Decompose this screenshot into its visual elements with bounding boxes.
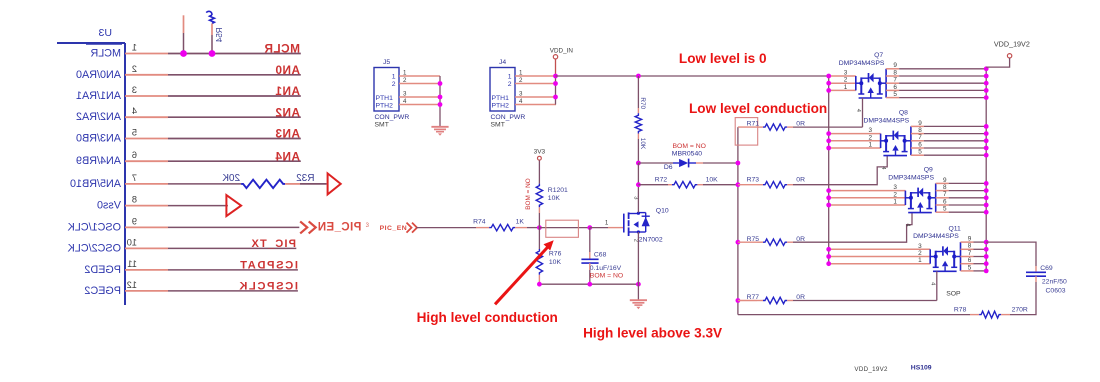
wire mosfet left bus <box>828 76 830 264</box>
transistor Q11 gate bracket <box>933 270 957 272</box>
svg-text:1: 1 <box>392 74 396 81</box>
resistor R32 zigzag <box>241 180 285 188</box>
svg-text:8: 8 <box>918 127 922 134</box>
svg-text:AN3/RB0: AN3/RB0 <box>76 133 121 145</box>
resistor R71 zigzag <box>763 124 787 130</box>
ground under J5 <box>431 126 448 128</box>
svg-text:SMT: SMT <box>375 121 389 128</box>
wire R71 left <box>738 126 757 128</box>
svg-text:MCLR: MCLR <box>90 48 121 60</box>
ic U3 body outline <box>124 43 126 305</box>
svg-text:8: 8 <box>132 195 137 205</box>
connector J5 pin 1 stub <box>399 75 440 77</box>
junction J5 pin2 <box>438 81 443 86</box>
svg-text:CON_PWR: CON_PWR <box>491 114 526 121</box>
svg-text:R54: R54 <box>215 28 224 43</box>
junction left bus Q7 pin 1 <box>826 88 831 93</box>
wire C68 bottom lead <box>589 263 591 270</box>
wire R70 bottom <box>637 134 639 140</box>
junction right bus Q9 pin 6 <box>984 203 989 208</box>
svg-text:AN4/RB9: AN4/RB9 <box>76 155 121 167</box>
svg-text:R74: R74 <box>473 219 486 226</box>
junction right bus Q7 pin 9 <box>984 66 989 71</box>
wire Q7 gate vertical <box>862 98 864 127</box>
wire R77 left <box>738 300 757 302</box>
svg-text:2: 2 <box>844 77 848 84</box>
transistor Q8 left pin 1 wire <box>829 147 881 149</box>
wire row10 PIC_TX <box>168 247 296 249</box>
svg-text:6: 6 <box>943 198 947 205</box>
transistor Q11 right bracket <box>960 242 962 271</box>
transistor Q8 gate bracket <box>883 155 907 157</box>
svg-text:DMP34M4SPS: DMP34M4SPS <box>864 118 910 125</box>
wire R73 right <box>787 184 793 186</box>
svg-text:Low level conduction: Low level conduction <box>689 101 827 116</box>
svg-text:9: 9 <box>968 236 972 243</box>
wire net AN4 <box>168 160 301 162</box>
wire bottom rail <box>539 283 638 285</box>
svg-text:VDD_19V2: VDD_19V2 <box>854 366 888 373</box>
junction right bus Q8 pin 9 <box>984 124 989 129</box>
transistor Q8 right pin 5 wire <box>911 154 924 156</box>
svg-text:4: 4 <box>403 98 407 105</box>
wire node to R76 <box>538 228 540 249</box>
wire D6 anode <box>638 162 673 164</box>
wire R71 right <box>787 126 793 128</box>
junction left bus Q8 pin 3 <box>826 131 831 136</box>
svg-text:R70: R70 <box>639 97 646 109</box>
resistor R74 zigzag <box>489 224 515 230</box>
svg-text:AN5/RB10: AN5/RB10 <box>70 178 121 190</box>
junction R70 top <box>636 74 641 79</box>
connector J4 pin 3 stub <box>515 96 556 98</box>
svg-text:HS109: HS109 <box>911 364 932 371</box>
svg-text:3: 3 <box>519 90 523 97</box>
svg-text:AN2/RA2: AN2/RA2 <box>76 111 121 123</box>
wire R75 left <box>738 241 757 243</box>
junction gate bus R75 <box>736 240 741 245</box>
connector J4 pin 1 stub <box>515 75 556 77</box>
junction J4 pin2 <box>553 81 558 86</box>
transistor Q7 left pin 2 wire <box>829 82 856 84</box>
wire R78 right <box>1001 314 1010 316</box>
diode D6 <box>679 159 688 167</box>
svg-text:9: 9 <box>918 120 922 127</box>
wire R76 to rail <box>538 275 540 284</box>
svg-text:1: 1 <box>508 74 512 81</box>
transistor Q8 left bracket <box>880 134 882 148</box>
svg-text:R76: R76 <box>549 250 562 257</box>
wire row11 ICSPDAT <box>168 269 298 271</box>
wire R72 left <box>638 184 668 186</box>
svg-text:3: 3 <box>918 243 922 250</box>
junction right bus Q9 pin 9 <box>984 181 989 186</box>
svg-text:1: 1 <box>844 84 848 91</box>
svg-text:C68: C68 <box>594 252 607 259</box>
svg-text:Q9: Q9 <box>924 167 933 174</box>
svg-text:3: 3 <box>869 127 873 134</box>
junction left bus Q11 pin 3 <box>826 247 831 252</box>
transistor Q9 right pin 7 wire <box>936 197 949 199</box>
wire row7 segment box to R32 <box>168 183 241 185</box>
transistor Q9 right pin 9 wire <box>936 182 949 184</box>
svg-text:PGEC2: PGEC2 <box>84 285 121 297</box>
svg-text:High level conduction: High level conduction <box>417 310 558 325</box>
wire D6 cathode <box>689 162 696 164</box>
resistor R78 zigzag <box>979 311 1001 318</box>
svg-text:9: 9 <box>893 62 897 69</box>
transistor Q8 left pin 2 wire <box>829 140 881 142</box>
transistor Q11 left pin 1 wire <box>829 263 931 265</box>
transistor Q11 channel junctions <box>934 255 938 259</box>
wire U3 pin 10 stub <box>125 247 168 249</box>
wire U3 pin 5 stub <box>125 138 168 140</box>
junction right bus Q7 pin 6 <box>984 88 989 93</box>
svg-text:DMP34M4SPS: DMP34M4SPS <box>839 60 885 67</box>
svg-text:PIC_TX: PIC_TX <box>250 238 296 250</box>
junction right bus Q8 pin 7 <box>984 138 989 143</box>
wire U3 pin 11 stub <box>125 269 168 271</box>
connector J5 body <box>374 68 399 112</box>
svg-text:1: 1 <box>893 199 897 206</box>
transistor Q9 right pin 5 wire <box>936 211 949 213</box>
connector J5 pin 3 stub <box>399 96 440 98</box>
svg-text:3: 3 <box>844 70 848 77</box>
svg-text:PTH1: PTH1 <box>376 95 394 102</box>
svg-text:3: 3 <box>893 184 897 191</box>
Q10 drain junction <box>637 212 640 215</box>
svg-text:Q8: Q8 <box>899 110 908 117</box>
Q10 source junction <box>637 230 640 233</box>
ground under Q10 <box>637 284 639 299</box>
wire U3 pin 12 stub <box>125 290 168 292</box>
junction right bus Q11 pin 5 <box>984 269 989 274</box>
svg-text:10K: 10K <box>639 138 646 150</box>
svg-text:2: 2 <box>132 64 137 74</box>
transistor Q11 right pin 7 wire <box>961 256 974 258</box>
buffer triangle row8 <box>226 195 241 216</box>
wire U3 pin 1 stub <box>125 53 168 55</box>
resistor R1201 zigzag <box>536 184 542 208</box>
transistor Q8 right pin 8 wire <box>911 133 924 135</box>
svg-text:MCLR: MCLR <box>264 42 300 56</box>
svg-text:PIC_EN: PIC_EN <box>380 225 408 232</box>
svg-text:4: 4 <box>519 98 523 105</box>
wire R75 right <box>787 241 793 243</box>
junction MCLR B <box>209 50 216 57</box>
junction left bus Q11 pin 2 <box>826 254 831 259</box>
svg-text:CON_PWR: CON_PWR <box>375 114 410 121</box>
transistor Q9 left pin 1 wire <box>829 204 906 206</box>
junction left bus Q9 pin 3 <box>826 188 831 193</box>
svg-text:5: 5 <box>132 128 137 138</box>
transistor Q9 body <box>910 192 912 209</box>
wire R77 to Q11 gate <box>793 300 937 302</box>
svg-text:High level above 3.3V: High level above 3.3V <box>583 326 722 341</box>
svg-text:C69: C69 <box>1040 265 1053 272</box>
svg-text:10K: 10K <box>548 195 561 202</box>
junction left bus Q7 pin 3 <box>826 74 831 79</box>
junction left bus Q8 pin 1 <box>826 146 831 151</box>
svg-text:R78: R78 <box>954 307 967 314</box>
transistor Q8 right bracket <box>910 126 912 155</box>
svg-text:2: 2 <box>893 191 897 198</box>
wire R73 left <box>738 184 757 186</box>
wire R72 right <box>697 184 703 186</box>
connector J4 pin 2 stub <box>515 83 556 85</box>
transistor Q8 right pin 7 wire <box>911 140 924 142</box>
svg-text:VDD_IN: VDD_IN <box>550 47 574 54</box>
svg-text:BOM = NO: BOM = NO <box>525 178 532 209</box>
resistor R73 zigzag <box>763 182 787 188</box>
svg-text:0.1uF/16V: 0.1uF/16V <box>590 265 622 272</box>
svg-text:Q7: Q7 <box>874 52 883 59</box>
svg-text:DMP34M4SPS: DMP34M4SPS <box>888 175 934 182</box>
svg-text:6: 6 <box>918 141 922 148</box>
svg-text:ICSPCLK: ICSPCLK <box>238 281 298 293</box>
svg-text:6: 6 <box>968 257 972 264</box>
junction rail R76 <box>537 282 542 287</box>
svg-text:AN0: AN0 <box>275 63 300 77</box>
wire R75 to Q9 gate jog <box>793 213 912 243</box>
transistor Q11 left pin 2 wire <box>829 256 931 258</box>
wire row9 PIC_EN <box>168 226 299 228</box>
svg-text:AN1/RA1: AN1/RA1 <box>76 90 121 102</box>
transistor Q9 channel junctions <box>909 196 913 200</box>
svg-text:VDD_19V2: VDD_19V2 <box>994 40 1030 49</box>
transistor Q9 right bracket <box>935 183 937 212</box>
svg-text:4: 4 <box>132 106 137 116</box>
junction J4 pin1 <box>553 74 558 79</box>
transistor Q9 gate bracket <box>908 212 932 214</box>
junction R72 left <box>636 182 641 187</box>
wire U3 pin 9 stub <box>125 226 168 228</box>
svg-text:0R: 0R <box>796 177 805 184</box>
transistor Q8 right pin 6 wire <box>911 147 924 149</box>
wire VDD_19V2 stem <box>986 58 1009 67</box>
svg-text:5: 5 <box>918 149 922 156</box>
wire U3 pin 7 stub <box>125 183 168 185</box>
transistor Q7 body <box>860 77 862 94</box>
wire C69 top lead <box>986 242 1036 266</box>
junction right bus Q7 pin 7 <box>984 81 989 86</box>
svg-text:8: 8 <box>893 69 897 76</box>
svg-text:7: 7 <box>918 134 922 141</box>
svg-text:7: 7 <box>968 250 972 257</box>
wire U3 pin 6 stub <box>125 160 168 162</box>
transistor Q7 left pin 3 wire <box>829 75 856 77</box>
transistor Q11 body <box>935 251 937 268</box>
svg-text:1: 1 <box>918 257 922 264</box>
connector J4 body <box>490 68 515 112</box>
svg-text:PTH2: PTH2 <box>492 103 510 110</box>
wire R70 to R72 row <box>637 163 639 185</box>
svg-text:5: 5 <box>943 206 947 213</box>
transistor Q7 right pin 5 wire <box>886 97 899 99</box>
transistor Q7 right bracket <box>885 69 887 98</box>
highlight box around R76 <box>546 220 579 237</box>
resistor R75 zigzag <box>763 239 787 245</box>
transistor Q8 channel junctions <box>884 139 888 143</box>
svg-text:AN2: AN2 <box>275 105 300 119</box>
svg-text:3: 3 <box>633 196 639 199</box>
wire net AN0 <box>168 74 301 76</box>
junction right bus Q11 pin 7 <box>984 254 989 259</box>
transistor Q7 gate bracket <box>859 97 883 99</box>
svg-text:1: 1 <box>132 43 137 53</box>
junction J4 pin3 <box>553 95 558 100</box>
svg-text:PIC_EN: PIC_EN <box>317 222 361 234</box>
annotation arrow to R76 <box>495 244 551 305</box>
svg-text:PTH1: PTH1 <box>492 95 510 102</box>
svg-text:3V3: 3V3 <box>534 149 546 156</box>
capacitor C69 plates <box>1026 271 1046 273</box>
wire row8 Vss0 <box>168 205 228 207</box>
transistor Q7 right pin 7 wire <box>886 82 899 84</box>
svg-text:SOP: SOP <box>946 291 961 298</box>
svg-text:2: 2 <box>508 81 512 88</box>
wire node to C68 node <box>539 227 589 229</box>
wire VDD_IN stem <box>555 59 557 76</box>
transistor Q10 symbol <box>623 214 625 233</box>
resistor R54 zigzag <box>210 15 215 24</box>
capacitor C68 plates <box>581 258 598 260</box>
svg-text:7: 7 <box>132 173 137 183</box>
transistor Q8 right pin 9 wire <box>911 125 924 127</box>
svg-text:20K: 20K <box>222 173 240 184</box>
wire net MCLR <box>168 53 301 55</box>
wire U3 pin 4 stub <box>125 116 168 118</box>
junction left bus Q11 pin 1 <box>826 261 831 266</box>
svg-text:AN0/RA0: AN0/RA0 <box>76 69 121 81</box>
transistor Q11 right pin 6 wire <box>961 263 974 265</box>
highlight box around R71 <box>735 118 758 146</box>
svg-text:6: 6 <box>132 150 137 160</box>
svg-text:2: 2 <box>918 250 922 257</box>
junction gate bus D6 <box>736 161 741 166</box>
junction left bus Q8 pin 2 <box>826 138 831 143</box>
svg-text:8: 8 <box>968 243 972 250</box>
svg-text:1K: 1K <box>516 219 525 226</box>
wire R71 to Q7 gate <box>793 126 863 128</box>
svg-text:J5: J5 <box>383 59 390 66</box>
svg-text:10K: 10K <box>706 177 719 184</box>
svg-text:9: 9 <box>132 216 137 226</box>
svg-text:U3: U3 <box>98 27 112 39</box>
wire R1201 to node <box>538 207 540 213</box>
connector J4 pin 4 stub <box>515 104 556 106</box>
junction right bus Q8 pin 5 <box>984 153 989 158</box>
wire R74 to node <box>515 227 527 229</box>
svg-text:Vss0: Vss0 <box>97 200 121 212</box>
svg-text:2: 2 <box>392 81 396 88</box>
svg-text:PTH2: PTH2 <box>376 103 394 110</box>
transistor Q11 right pin 9 wire <box>961 241 974 243</box>
svg-text:AN3: AN3 <box>275 127 300 141</box>
svg-text:6: 6 <box>893 84 897 91</box>
offpage chevrons PIC_EN left <box>300 221 307 233</box>
wire net AN1 <box>168 95 301 97</box>
svg-text:C0603: C0603 <box>1046 288 1066 295</box>
svg-text:1: 1 <box>605 220 609 227</box>
svg-text:OSC1/CLK: OSC1/CLK <box>67 221 121 233</box>
wire 3V3 to R1201 <box>538 160 540 183</box>
svg-text:0R: 0R <box>796 294 805 301</box>
junction J5 pin3 <box>438 95 443 100</box>
transistor Q7 left bracket <box>855 76 857 90</box>
wire vertical MCLR stub B <box>211 24 213 36</box>
wire R70 top <box>637 76 639 108</box>
wire U3 pin 3 stub <box>125 95 168 97</box>
svg-text:270R: 270R <box>1012 307 1028 314</box>
transistor Q9 left bracket <box>904 191 906 205</box>
wire row7 R32 to buffer <box>285 183 300 185</box>
transistor Q9 right pin 6 wire <box>936 204 949 206</box>
svg-text:MBR0540: MBR0540 <box>672 151 702 158</box>
junction D6 left <box>636 161 641 166</box>
svg-text:SMT: SMT <box>491 121 505 128</box>
resistor R70 zigzag <box>635 113 641 133</box>
junction gate bus R77 <box>736 298 741 303</box>
svg-text:1: 1 <box>403 69 407 76</box>
svg-text:OSC2/CLK: OSC2/CLK <box>67 242 121 254</box>
svg-text:R73: R73 <box>747 177 760 184</box>
junction right bus Q7 pin 5 <box>984 95 989 100</box>
junction right bus Q11 pin 9 <box>984 240 989 245</box>
svg-text:DMP34M4SPS: DMP34M4SPS <box>913 233 959 240</box>
svg-text:3: 3 <box>403 90 407 97</box>
svg-text:PGED2: PGED2 <box>84 264 121 276</box>
wire PIC_EN to R74 <box>416 227 476 229</box>
wire J5 bus vertical <box>439 76 441 127</box>
wire R73 to Q8 gate jog <box>793 156 887 185</box>
wire gate bus vertical <box>737 127 739 315</box>
resistor R72 zigzag <box>672 182 697 188</box>
junction left bus Q7 pin 2 <box>826 81 831 86</box>
svg-text:22nF/50: 22nF/50 <box>1042 279 1067 286</box>
transistor Q9 left pin 2 wire <box>829 197 906 199</box>
connector J5 pin 2 stub <box>399 83 440 85</box>
transistor Q7 right pin 8 wire <box>886 75 899 77</box>
resistor R76 zigzag <box>536 249 542 275</box>
junction right bus Q7 pin 8 <box>984 74 989 79</box>
svg-text:1: 1 <box>869 142 873 149</box>
wire VDD_IN row to right <box>556 75 829 77</box>
junction MCLR A <box>180 50 187 57</box>
transistor Q8 left pin 3 wire <box>829 133 881 135</box>
wire net AN3 <box>168 138 301 140</box>
junction right bus Q11 pin 8 <box>984 247 989 252</box>
junction right bus Q9 pin 5 <box>984 210 989 215</box>
junction R74/R1201 <box>537 225 542 230</box>
svg-text:2: 2 <box>633 239 639 242</box>
wire node to Q10 gate <box>590 227 608 229</box>
svg-text:BOM = NO: BOM = NO <box>590 273 623 280</box>
svg-text:R1201: R1201 <box>548 187 568 194</box>
wire R78 left <box>970 314 979 316</box>
wire vertical MCLR stub A <box>183 15 185 33</box>
transistor Q11 right pin 5 wire <box>961 270 974 272</box>
svg-text:11: 11 <box>127 259 137 269</box>
wire net AN2 <box>168 116 301 118</box>
wire C68 top lead <box>589 228 591 252</box>
junction rail C68 <box>587 282 592 287</box>
wire U3 pin 8 stub <box>125 205 168 207</box>
wire R77 right <box>787 300 793 302</box>
svg-text:3: 3 <box>132 85 137 95</box>
svg-text:9: 9 <box>943 177 947 184</box>
svg-text:D6: D6 <box>664 164 673 171</box>
